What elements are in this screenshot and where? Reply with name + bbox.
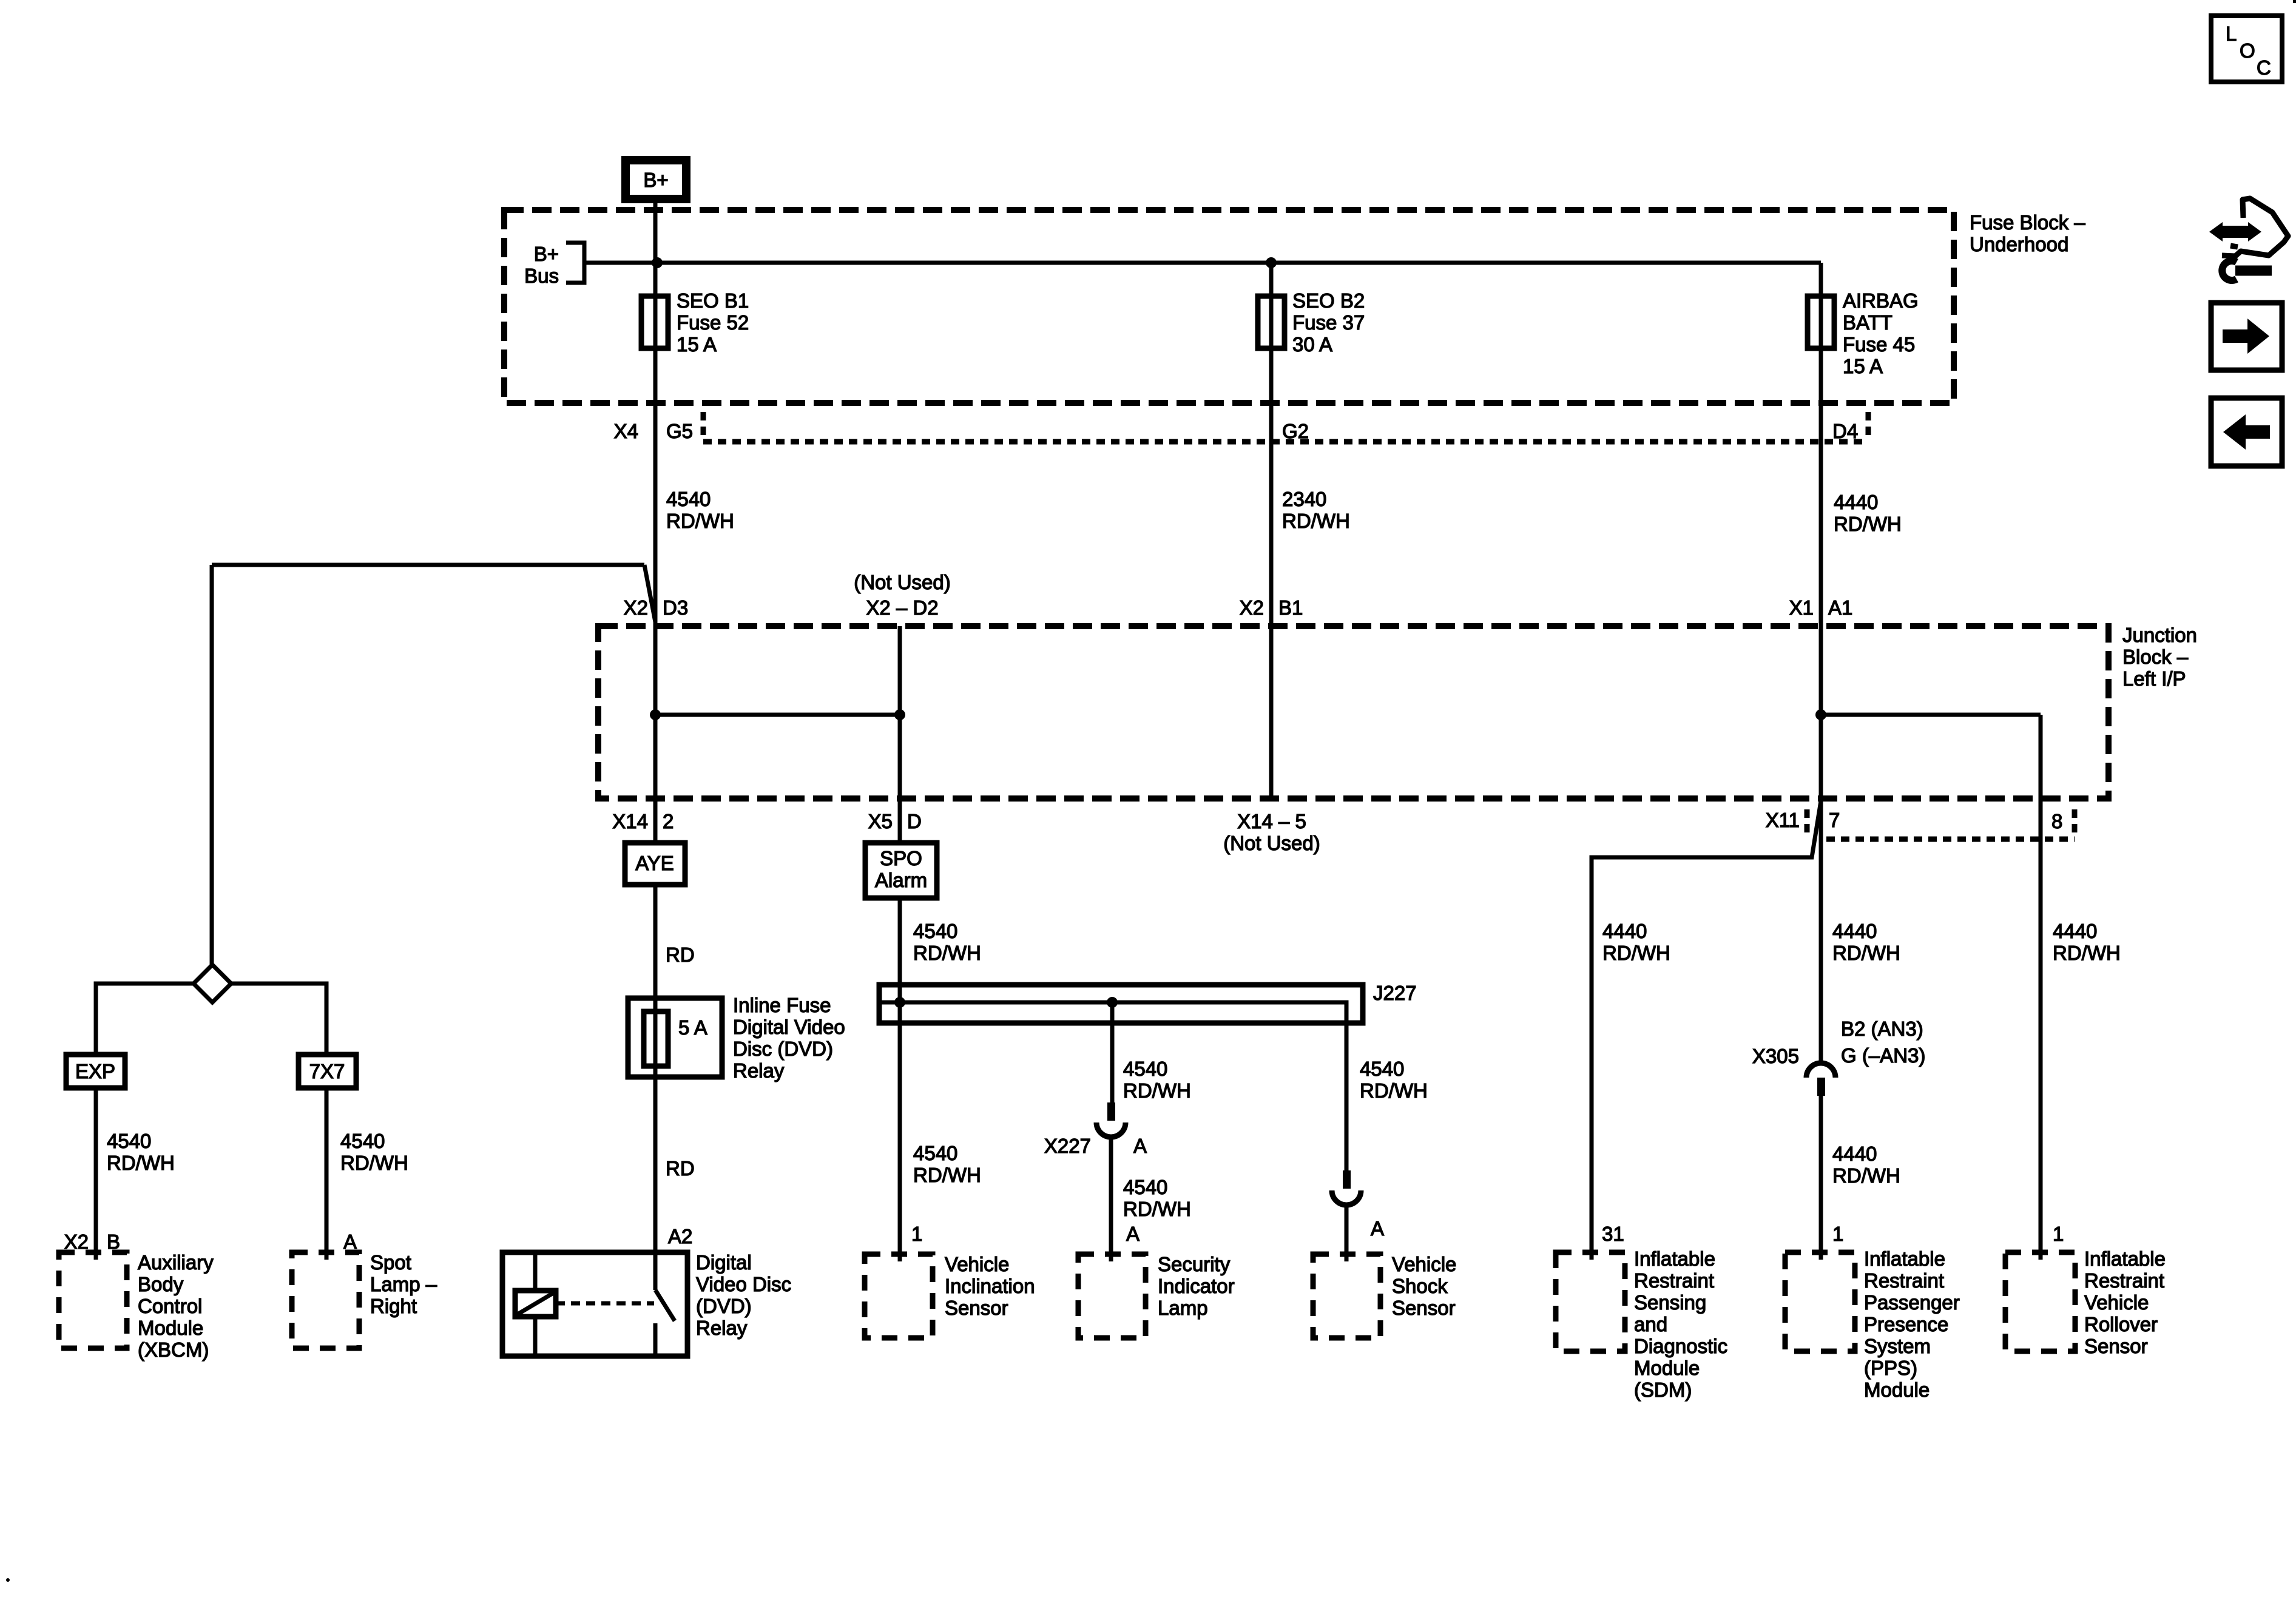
svg-text:Fuse 52: Fuse 52 xyxy=(677,311,749,334)
svg-text:Inflatable: Inflatable xyxy=(2084,1247,2166,1270)
svg-text:Inclination: Inclination xyxy=(945,1275,1035,1297)
svg-text:Alarm: Alarm xyxy=(875,869,927,891)
svg-text:Vehicle: Vehicle xyxy=(2084,1291,2149,1314)
svg-text:RD/WH: RD/WH xyxy=(1602,942,1670,964)
svg-text:4440: 4440 xyxy=(1602,920,1647,942)
svg-text:1: 1 xyxy=(911,1223,922,1245)
svg-text:X14: X14 xyxy=(612,810,648,832)
svg-text:J227: J227 xyxy=(1373,982,1417,1004)
svg-text:Indicator: Indicator xyxy=(1158,1275,1235,1297)
svg-text:1: 1 xyxy=(1832,1223,1843,1245)
svg-text:(Not Used): (Not Used) xyxy=(854,571,951,593)
svg-text:X1: X1 xyxy=(1789,596,1814,619)
svg-text:X305: X305 xyxy=(1752,1045,1799,1067)
svg-text:D3: D3 xyxy=(663,596,688,619)
svg-text:A: A xyxy=(1371,1217,1384,1240)
svg-text:31: 31 xyxy=(1602,1223,1624,1245)
svg-text:AIRBAG: AIRBAG xyxy=(1843,289,1919,312)
svg-text:SEO B1: SEO B1 xyxy=(677,289,749,312)
svg-text:SPO: SPO xyxy=(880,847,922,869)
svg-text:Presence: Presence xyxy=(1864,1313,1948,1335)
svg-text:X2: X2 xyxy=(64,1230,89,1253)
svg-text:RD/WH: RD/WH xyxy=(2053,942,2121,964)
svg-text:1: 1 xyxy=(2053,1223,2064,1245)
svg-text:B2 (AN3): B2 (AN3) xyxy=(1841,1018,1923,1040)
svg-text:Relay: Relay xyxy=(696,1317,748,1339)
svg-text:X5: X5 xyxy=(868,810,893,832)
svg-text:Rollover: Rollover xyxy=(2084,1313,2158,1335)
svg-text:Relay: Relay xyxy=(733,1059,785,1082)
svg-text:2: 2 xyxy=(663,810,674,832)
svg-text:Module: Module xyxy=(1634,1357,1700,1379)
svg-text:RD/WH: RD/WH xyxy=(1123,1198,1191,1220)
svg-text:B+: B+ xyxy=(643,169,668,191)
svg-text:SEO B2: SEO B2 xyxy=(1292,289,1365,312)
svg-text:4540: 4540 xyxy=(1360,1058,1404,1080)
svg-text:RD/WH: RD/WH xyxy=(107,1152,175,1174)
svg-text:O: O xyxy=(2240,39,2255,62)
svg-text:Sensor: Sensor xyxy=(1392,1297,1456,1319)
svg-text:RD/WH: RD/WH xyxy=(1123,1079,1191,1102)
svg-text:2340: 2340 xyxy=(1282,488,1326,510)
svg-text:X14 – 5: X14 – 5 xyxy=(1237,810,1306,832)
svg-text:and: and xyxy=(1634,1313,1667,1335)
svg-text:7X7: 7X7 xyxy=(309,1060,345,1082)
svg-text:Security: Security xyxy=(1158,1253,1231,1275)
svg-text:15 A: 15 A xyxy=(677,333,717,356)
svg-text:4440: 4440 xyxy=(1832,920,1877,942)
svg-text:Body: Body xyxy=(138,1273,184,1295)
svg-text:G2: G2 xyxy=(1282,420,1309,442)
svg-text:RD/WH: RD/WH xyxy=(913,942,981,964)
svg-text:Inflatable: Inflatable xyxy=(1864,1247,1945,1270)
svg-text:X2: X2 xyxy=(624,596,648,619)
svg-text:4540: 4540 xyxy=(1123,1058,1167,1080)
svg-text:4440: 4440 xyxy=(1834,491,1878,513)
svg-text:4440: 4440 xyxy=(1832,1143,1877,1165)
svg-text:RD/WH: RD/WH xyxy=(1832,942,1900,964)
svg-text:Inline Fuse: Inline Fuse xyxy=(733,994,831,1016)
svg-text:Sensing: Sensing xyxy=(1634,1291,1706,1314)
svg-text:RD/WH: RD/WH xyxy=(913,1164,981,1186)
svg-text:Block –: Block – xyxy=(2122,646,2189,668)
svg-text:Underhood: Underhood xyxy=(1970,233,2068,255)
svg-text:A: A xyxy=(1133,1135,1147,1157)
svg-text:X227: X227 xyxy=(1044,1135,1091,1157)
svg-text:Lamp: Lamp xyxy=(1158,1297,1208,1319)
svg-text:RD: RD xyxy=(666,944,695,966)
svg-text:D: D xyxy=(907,810,922,832)
svg-text:15 A: 15 A xyxy=(1843,355,1883,377)
svg-text:Bus: Bus xyxy=(524,265,559,287)
svg-text:System: System xyxy=(1864,1335,1931,1357)
svg-text:Spot: Spot xyxy=(370,1251,411,1274)
svg-text:Passenger: Passenger xyxy=(1864,1291,1960,1314)
svg-text:Auxiliary: Auxiliary xyxy=(138,1251,214,1274)
svg-text:RD/WH: RD/WH xyxy=(340,1152,408,1174)
svg-text:Fuse 37: Fuse 37 xyxy=(1292,311,1365,334)
svg-text:(SDM): (SDM) xyxy=(1634,1379,1692,1401)
svg-text:4440: 4440 xyxy=(2053,920,2097,942)
svg-text:Disc (DVD): Disc (DVD) xyxy=(733,1038,833,1060)
svg-text:A1: A1 xyxy=(1828,596,1852,619)
svg-text:30 A: 30 A xyxy=(1292,333,1332,356)
svg-text:Diagnostic: Diagnostic xyxy=(1634,1335,1727,1357)
svg-text:5 A: 5 A xyxy=(678,1016,707,1039)
svg-text:RD/WH: RD/WH xyxy=(1834,513,1902,535)
svg-text:Restraint: Restraint xyxy=(1864,1269,1944,1292)
svg-text:Sensor: Sensor xyxy=(2084,1335,2148,1357)
svg-text:(XBCM): (XBCM) xyxy=(138,1338,209,1361)
svg-text:X2 – D2: X2 – D2 xyxy=(866,596,938,619)
svg-text:X2: X2 xyxy=(1240,596,1264,619)
svg-text:Restraint: Restraint xyxy=(2084,1269,2164,1292)
svg-text:B+: B+ xyxy=(534,243,559,265)
svg-text:4540: 4540 xyxy=(1123,1176,1167,1198)
svg-text:4540: 4540 xyxy=(107,1130,151,1152)
svg-text:(PPS): (PPS) xyxy=(1864,1357,1917,1379)
svg-text:D4: D4 xyxy=(1832,420,1858,442)
svg-text:Fuse Block –: Fuse Block – xyxy=(1970,211,2085,234)
svg-text:X4: X4 xyxy=(614,420,638,442)
svg-text:EXP: EXP xyxy=(75,1060,115,1082)
svg-text:B: B xyxy=(107,1230,120,1253)
svg-text:Vehicle: Vehicle xyxy=(1392,1253,1456,1275)
svg-text:AYE: AYE xyxy=(635,852,674,874)
svg-text:BATT: BATT xyxy=(1843,311,1893,334)
svg-text:Module: Module xyxy=(138,1317,203,1339)
svg-text:Module: Module xyxy=(1864,1379,1930,1401)
svg-text:Video Disc: Video Disc xyxy=(696,1273,791,1295)
svg-text:Sensor: Sensor xyxy=(945,1297,1008,1319)
svg-text:Junction: Junction xyxy=(2122,624,2197,646)
svg-text:Right: Right xyxy=(370,1295,417,1317)
svg-text:RD/WH: RD/WH xyxy=(666,510,734,532)
svg-text:Restraint: Restraint xyxy=(1634,1269,1714,1292)
svg-text:4540: 4540 xyxy=(913,1142,957,1164)
svg-text:C: C xyxy=(2257,56,2271,79)
svg-text:RD: RD xyxy=(666,1157,695,1180)
svg-text:7: 7 xyxy=(1829,809,1840,831)
svg-text:Vehicle: Vehicle xyxy=(945,1253,1009,1275)
svg-text:RD/WH: RD/WH xyxy=(1360,1079,1428,1102)
svg-text:B1: B1 xyxy=(1278,596,1303,619)
svg-text:A: A xyxy=(1126,1223,1140,1245)
svg-text:(DVD): (DVD) xyxy=(696,1295,752,1317)
svg-text:A: A xyxy=(343,1230,357,1253)
svg-text:Left I/P: Left I/P xyxy=(2122,667,2186,690)
svg-text:Digital Video: Digital Video xyxy=(733,1016,845,1038)
svg-text:L: L xyxy=(2226,22,2237,45)
svg-text:Fuse 45: Fuse 45 xyxy=(1843,333,1915,356)
svg-text:4540: 4540 xyxy=(913,920,957,942)
svg-text:Lamp –: Lamp – xyxy=(370,1273,437,1295)
svg-text:Shock: Shock xyxy=(1392,1275,1448,1297)
svg-text:Inflatable: Inflatable xyxy=(1634,1247,1715,1270)
svg-text:Control: Control xyxy=(138,1295,202,1317)
svg-text:G5: G5 xyxy=(666,420,693,442)
svg-text:4540: 4540 xyxy=(666,488,711,510)
svg-text:(Not Used): (Not Used) xyxy=(1223,832,1320,854)
svg-text:8: 8 xyxy=(2051,810,2062,832)
svg-text:RD/WH: RD/WH xyxy=(1282,510,1350,532)
svg-text:A2: A2 xyxy=(668,1225,692,1247)
svg-text:X11: X11 xyxy=(1766,809,1800,831)
svg-text:Digital: Digital xyxy=(696,1251,752,1274)
svg-text:G (–AN3): G (–AN3) xyxy=(1841,1044,1925,1067)
svg-text:RD/WH: RD/WH xyxy=(1832,1164,1900,1187)
svg-text:4540: 4540 xyxy=(340,1130,385,1152)
